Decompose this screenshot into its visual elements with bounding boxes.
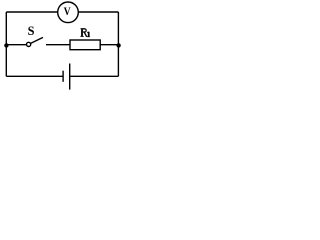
svg-text:S: S (28, 24, 35, 38)
svg-text:V: V (64, 6, 71, 19)
